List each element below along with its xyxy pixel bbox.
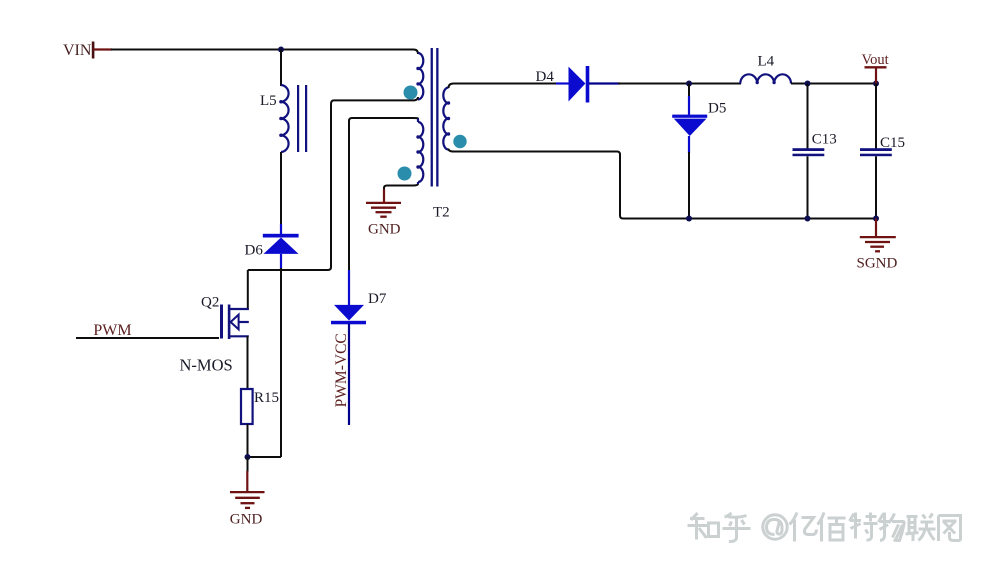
capacitor C13 — [793, 84, 837, 219]
node VIN/L5 junction — [278, 47, 284, 53]
svg-text:T2: T2 — [433, 205, 450, 221]
wire L5 to D6 — [280, 152, 282, 228]
node R15/GND junction — [245, 454, 251, 460]
diode D7 — [331, 270, 387, 425]
T2 primary winding 2 — [418, 122, 423, 182]
svg-text:L5: L5 — [260, 93, 277, 109]
svg-text:GND: GND — [230, 512, 263, 528]
inductor L4 — [740, 53, 791, 84]
wire drain riser — [247, 270, 249, 310]
diode D6 — [245, 224, 299, 270]
T2 dot primary2 — [398, 167, 412, 181]
node Vout junction — [873, 81, 879, 87]
wire D4 to L4 — [618, 83, 741, 85]
svg-text:PWM-VCC: PWM-VCC — [333, 333, 350, 407]
svg-text:C13: C13 — [812, 132, 837, 148]
wire primary2 bottom to GND — [384, 184, 418, 203]
resistor R15 — [241, 389, 279, 424]
ground GND (R15) — [230, 457, 265, 528]
diode D5 — [672, 84, 726, 154]
wire D5 to bottom rail — [688, 152, 690, 219]
wire secondary top rail — [449, 84, 559, 89]
wire secondary bottom return — [449, 149, 877, 219]
wire VIN rail — [111, 50, 418, 55]
svg-text:C15: C15 — [880, 135, 905, 151]
T2 primary winding 1 — [418, 53, 423, 99]
ground GND (transformer) — [366, 189, 401, 238]
node D5 bottom junction — [686, 216, 692, 222]
svg-text:D6: D6 — [245, 243, 264, 259]
svg-text:D7: D7 — [368, 291, 387, 307]
wire primary1 bottom return — [248, 97, 418, 270]
port PWM — [76, 322, 219, 339]
svg-text:VIN: VIN — [63, 42, 92, 59]
wire source to R15 — [247, 336, 249, 390]
transistor Q2 — [180, 294, 249, 374]
svg-text:SGND: SGND — [857, 256, 898, 272]
node C13 top junction — [805, 81, 811, 87]
svg-text:R15: R15 — [254, 390, 279, 406]
svg-text:PWM: PWM — [93, 322, 131, 339]
T2 dot primary1 — [404, 86, 418, 100]
diode D4 — [536, 66, 621, 103]
svg-text:N-MOS: N-MOS — [180, 355, 233, 374]
node D5 top junction — [686, 81, 692, 87]
svg-text:Q2: Q2 — [201, 294, 219, 310]
T2 secondary winding — [443, 88, 448, 150]
capacitor C15 — [860, 84, 905, 219]
node C13 bottom junction — [805, 216, 811, 222]
wire D6-return horizontal — [248, 456, 282, 458]
T2 core — [431, 48, 433, 187]
svg-text:Vout: Vout — [862, 52, 889, 68]
ground SGND — [857, 219, 898, 272]
svg-text:GND: GND — [368, 222, 401, 238]
watermark 知乎 @亿佰特物联网 — [688, 513, 961, 542]
wire primary2 top to D7 — [349, 118, 414, 272]
svg-text:D4: D4 — [536, 69, 555, 85]
port VIN — [63, 42, 112, 59]
wire D6 to ground return — [280, 268, 282, 457]
port Vout — [862, 52, 889, 84]
wire L5 top — [280, 50, 282, 87]
node SGND junction — [873, 216, 879, 222]
wire L4 to Vout — [791, 83, 876, 85]
T2 dot secondary — [453, 135, 466, 148]
transformer T2 — [398, 48, 467, 221]
svg-text:D5: D5 — [708, 101, 726, 117]
svg-text:L4: L4 — [758, 53, 775, 69]
inductor L5 — [260, 85, 307, 152]
wire R15 to junction — [247, 424, 249, 458]
